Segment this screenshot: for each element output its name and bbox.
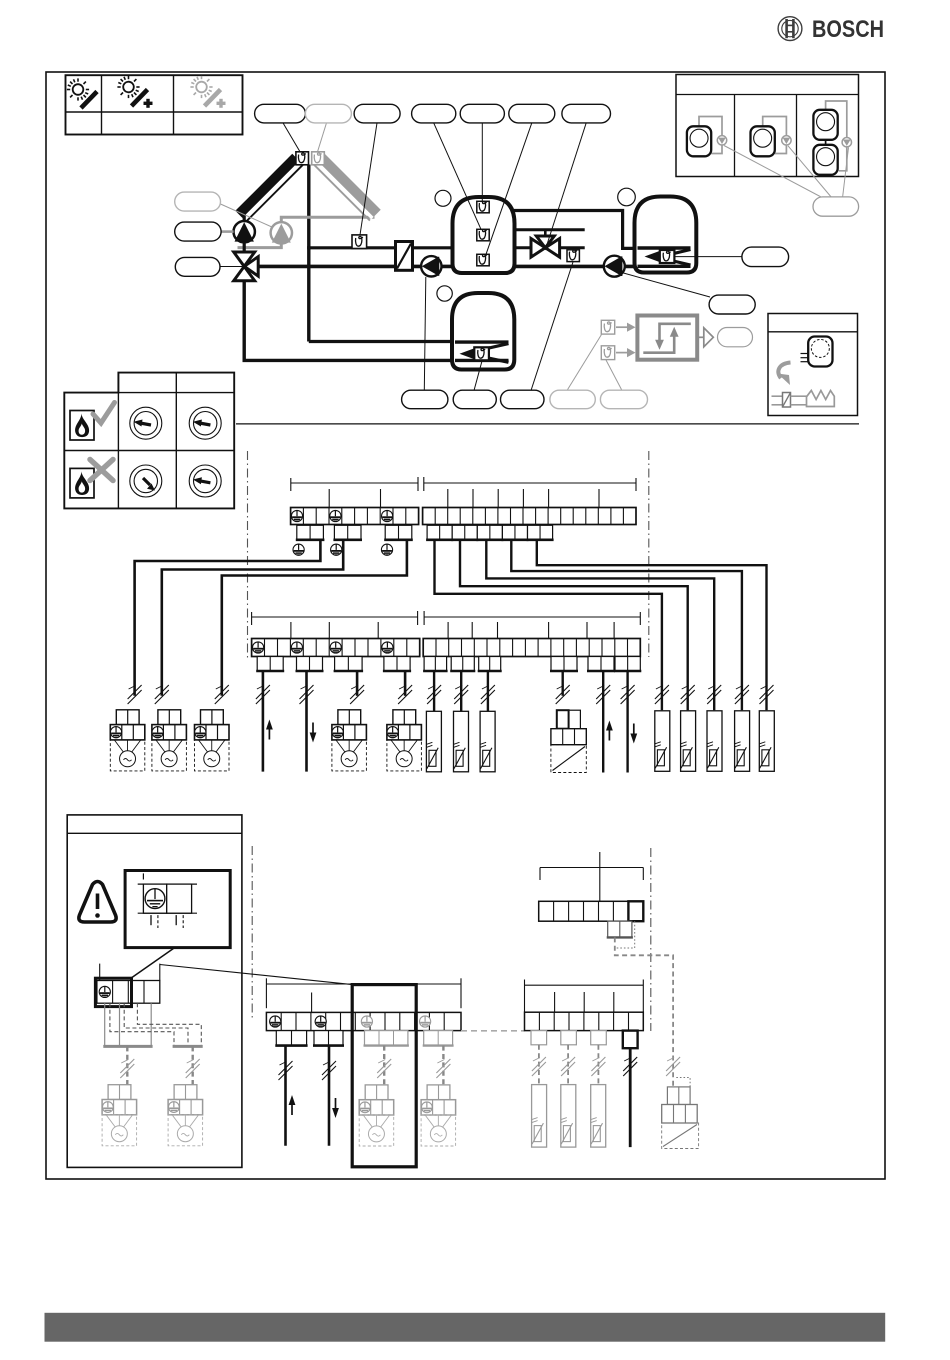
left callout pill 2 <box>175 222 221 241</box>
pump connector M6 <box>102 1085 137 1146</box>
ODU option 2 wiring <box>763 117 787 136</box>
ODU callout pill <box>813 197 859 216</box>
leader T3 sensor to pill B <box>474 361 482 391</box>
X7 plug 1 (grey) <box>531 1031 547 1045</box>
heating circuit stub lower <box>514 246 585 249</box>
terminal detail inset <box>125 871 230 948</box>
sensor TS7 <box>735 711 750 772</box>
flame table <box>64 373 234 509</box>
bottom callout pill D (grey) <box>550 390 595 409</box>
leader pill7 to valve V2 <box>547 123 587 246</box>
dashed cable to pump M7 <box>191 1046 193 1084</box>
terminal strip X6 <box>266 1012 461 1030</box>
section separator line <box>236 423 859 425</box>
leader to X6 highlight <box>160 965 352 985</box>
top callout pill 4 <box>412 104 456 123</box>
dash-dot boundary left (lower wiring) <box>251 846 253 1019</box>
leader T2 sensor to right pill <box>675 256 743 258</box>
X6 arrow up <box>289 1095 296 1115</box>
X8 plug connector <box>607 921 633 937</box>
ODU option 2 valve <box>782 136 791 145</box>
wire X2 to sensor TS7 <box>511 540 742 710</box>
check valve / gravity brake <box>396 242 413 271</box>
wire X3 to pump M4 <box>356 671 359 696</box>
wire X1 to pump M2 <box>162 540 343 696</box>
wire X2 to sensor TS8 <box>537 540 767 710</box>
terminal strip X4 (sensors 2) <box>423 639 640 657</box>
wire X2 to sensor TS4 <box>435 540 662 710</box>
X5 dashed conductors <box>110 1003 201 1046</box>
sensor TS9 (grey) <box>532 1085 547 1148</box>
X1 plug connector 3 <box>384 525 413 540</box>
terminal strip X3 (230V loads) <box>252 639 420 657</box>
leader left pill3 to valve V1 <box>220 266 242 268</box>
left callout pill 3 <box>175 257 220 276</box>
X6 PE terminals grey <box>361 1016 430 1027</box>
X2 plug connector 2 <box>451 525 478 540</box>
terminal strip X5 <box>97 981 160 1004</box>
sun+collector icon 1 <box>67 78 97 108</box>
top callout pill 6 <box>509 104 555 123</box>
sensor TS11 (grey) <box>591 1085 606 1148</box>
grey leader hyst sensor2 to pill E <box>606 360 622 391</box>
wire X1 to pump M1 <box>135 540 321 696</box>
wire X2 to sensor TS6 <box>486 540 714 710</box>
cable break M6 <box>120 1059 134 1078</box>
pipe to DHW tank upper <box>309 340 454 343</box>
grey leader hyst sensor1 to pill D <box>567 335 602 391</box>
terminal strip X1 (mains out) <box>291 508 419 525</box>
pump connector M9 <box>421 1085 456 1146</box>
black cable from X7 <box>629 1048 632 1147</box>
wire X4 aux flow <box>602 671 604 773</box>
position circle c <box>437 286 452 301</box>
gauge row1 col2 <box>130 407 162 439</box>
T3 sensor box <box>474 347 489 360</box>
hysteresis output pill <box>718 328 753 347</box>
grey collector <box>314 158 377 221</box>
grey cable to pump M9 <box>442 1046 444 1085</box>
sensor TS3 <box>480 711 495 772</box>
collector sensor (grey) <box>312 152 325 165</box>
terminal strip X1 bracket <box>291 477 636 507</box>
warning triangle <box>79 882 116 923</box>
leader lines to ODU callout <box>724 146 823 199</box>
leader pump P3 to pill <box>618 272 710 298</box>
solar variant legend table <box>66 75 243 134</box>
wire X3 to pump M5 <box>404 671 407 696</box>
X2 plug connector 3 <box>476 525 503 540</box>
X3/X4 plug connector 6 <box>450 657 475 672</box>
sensor TS4 <box>655 711 670 772</box>
DHW flow sensor <box>567 250 579 262</box>
valve V2 top stub <box>544 230 547 237</box>
pump connector M4 <box>332 710 367 771</box>
collector sensor (black) <box>296 152 309 165</box>
X1 PE terminals <box>291 510 392 521</box>
pump P3 callout pill <box>709 295 755 314</box>
X3 PE terminals <box>253 642 394 653</box>
X6-X7 link dashed <box>461 1030 525 1032</box>
X7 plug 4 (bold) <box>623 1031 638 1049</box>
solar return pipe <box>244 279 453 360</box>
input arrow 1 <box>616 323 636 332</box>
wire X2 to sensor TS5 <box>460 540 688 710</box>
bottom callout pill A <box>402 390 448 409</box>
sun+collector+ icon 2 <box>117 76 152 108</box>
aux arrow down <box>630 724 637 744</box>
leader left pill2 to pump P1 <box>221 230 234 233</box>
warning panel box <box>67 815 242 1168</box>
gauge row1 col3 <box>189 407 221 439</box>
leader DHW sensor to pill C <box>531 262 573 391</box>
heating circuit stub upper <box>514 228 585 231</box>
X3/X4 plug connector 8 <box>550 657 578 672</box>
X3/X4 plug connector 1 <box>256 657 284 672</box>
X2 plug connector 1 <box>426 525 453 540</box>
aux arrow up <box>606 721 613 741</box>
leader pill3 to return sensor <box>360 123 377 235</box>
grey solar circuit return <box>281 217 374 222</box>
X6 plug connector 2 <box>313 1031 344 1046</box>
strip X7 bracket <box>525 980 644 1013</box>
T1 sensor bottom <box>477 254 489 265</box>
pump connector M3 <box>195 710 230 771</box>
X7 plug 3 (grey) <box>591 1031 607 1045</box>
cable break M8 <box>377 1059 391 1078</box>
X1 earth bolt 1 <box>293 544 304 555</box>
X3/X4 plug connector 3 <box>334 657 364 672</box>
terminal strip X7 <box>525 1012 644 1030</box>
sensor TS2 <box>454 711 469 772</box>
X2 plug connector 5 <box>527 525 554 540</box>
X3/X4 plug connector 7 <box>478 657 502 672</box>
DHW 3-way valve V2 <box>531 236 560 257</box>
X2 plug connector 4 <box>501 525 528 540</box>
main outer frame <box>46 72 885 1179</box>
wire X4 to sensor TS2 <box>460 671 462 712</box>
terminal strip X2 (sensors) <box>423 508 636 525</box>
ODU option 3 wiring <box>826 101 847 138</box>
hysteresis sensor 1 <box>601 320 614 334</box>
leader pill1 to black collector sensor <box>283 123 300 152</box>
dash-dot boundary right (lower wiring) <box>650 848 652 1031</box>
X1 earth bolt 3 <box>381 544 392 555</box>
curved replacement arrow <box>778 363 791 386</box>
footer bar <box>45 1313 886 1342</box>
X1 plug connector 1 <box>296 525 325 540</box>
T2 sensor callout pill <box>742 247 789 267</box>
ODU option 3 valve <box>842 138 851 147</box>
flow direction arrow up <box>266 720 273 740</box>
strip X8 bracket <box>540 852 643 901</box>
inset leader line <box>131 948 175 979</box>
grey checkmark <box>93 403 115 424</box>
buffer tank T1 <box>453 197 515 273</box>
X8 dotted jumper <box>615 921 635 948</box>
X3/X4 plug connector 4 <box>383 657 411 672</box>
pipe to buffer tank upper <box>307 246 453 249</box>
X3/X4 plug connector 2 <box>296 657 324 672</box>
dash-dot boundary left (upper wiring) <box>247 451 249 660</box>
heater inset unit <box>808 337 832 367</box>
sensor TS8 <box>759 711 774 772</box>
T2 internal flow symbol <box>638 248 691 266</box>
svg-text:BOSCH: BOSCH <box>812 16 884 43</box>
solar 3-way valve V1 <box>234 252 259 281</box>
terminal strip X8 <box>539 901 644 921</box>
sensor TS6 <box>707 711 722 772</box>
T3 internal flow symbol <box>455 342 509 362</box>
flame icon not-allowed <box>70 468 94 498</box>
pump connector M1 <box>110 710 145 771</box>
grey solar pump <box>271 222 292 243</box>
cable break K2 <box>666 1057 680 1076</box>
T2 sensor box <box>660 250 675 263</box>
DHW tank T2 <box>635 197 697 273</box>
pump P3 <box>604 256 625 277</box>
sensor TS10 (grey) <box>561 1085 576 1148</box>
hysteresis sensor 2 <box>601 346 614 360</box>
grey cable to sensor TS9 <box>538 1045 540 1085</box>
X1 plug connector 2 <box>333 525 362 540</box>
X5 connector block right <box>173 1045 203 1048</box>
leader left pill1 to grey pump <box>221 204 274 228</box>
terminal strip X3 bracket <box>252 611 641 639</box>
solar return sensor <box>352 235 367 249</box>
ODU option 1 unit <box>687 126 711 156</box>
black collector <box>239 158 303 222</box>
top callout pill 3 <box>354 104 400 123</box>
leader pill4 to T1 mid sensor <box>434 123 481 229</box>
X3/X4 plug connector 10 <box>614 657 641 672</box>
strip X6 bracket <box>266 978 461 1012</box>
T1 sensor middle <box>477 229 489 241</box>
gauge row2 col2 <box>130 465 162 497</box>
X6 plug connector 4 (grey) <box>423 1031 454 1046</box>
cable break marks <box>128 685 774 704</box>
left callout pill 1 (grey) <box>175 192 221 211</box>
X6 highlight frame <box>352 985 416 1167</box>
X6 arrow down <box>332 1098 339 1118</box>
electric heater symbol <box>772 391 835 408</box>
sun+collector+ icon 3 (grey) <box>190 76 225 108</box>
DHW tank T3 <box>452 293 514 370</box>
X6 cable breaks <box>279 1061 337 1080</box>
input arrow 2 <box>616 348 636 357</box>
T1 sensor top <box>477 201 489 213</box>
bottom callout pill C <box>501 390 545 409</box>
flame icon allowed <box>70 411 94 441</box>
X6 flow wire <box>284 1046 287 1146</box>
hysteresis block <box>637 316 697 360</box>
X7 plug 2 (grey) <box>561 1031 577 1045</box>
X3/X4 plug connector 5 <box>423 657 448 672</box>
grey cable to pump M8 <box>383 1046 385 1085</box>
pump connector M8 <box>359 1085 394 1146</box>
heat pump options table <box>676 75 859 177</box>
dash-dot boundary right (upper wiring) <box>648 451 650 657</box>
flow direction arrow down <box>310 723 317 743</box>
electric heater inset box <box>768 314 858 416</box>
wire X4 aux return <box>626 671 628 773</box>
wire X1 to pump M3 <box>222 540 407 696</box>
bottom callout pill B <box>453 390 496 409</box>
ODU option 1 wiring <box>699 117 722 136</box>
X5 highlight frame <box>95 978 131 1006</box>
pump connector M5 <box>387 710 422 771</box>
X1 earth bolt 2 <box>331 544 342 555</box>
bottom callout pill E (grey) <box>600 390 647 409</box>
leader pill5 to T1 top sensor <box>481 123 483 201</box>
wire X4 to sensor TS1 <box>433 671 435 712</box>
dashed cable to pump M6 <box>126 1046 128 1084</box>
grey cable to sensor TS10 <box>567 1045 569 1085</box>
top callout pill 5 <box>460 104 504 123</box>
X6 plug connector 3 (grey) <box>364 1031 409 1046</box>
X6 return wire <box>328 1046 331 1146</box>
solar supply pipe (vertical) <box>307 165 310 342</box>
wire X4 to relay K1 <box>562 671 564 696</box>
sensor TS5 <box>681 711 696 772</box>
sensor TS1 <box>426 711 441 772</box>
gauge row2 col3 <box>189 465 221 497</box>
hysteresis output arrow <box>698 328 714 347</box>
top callout pill 1 <box>255 104 306 123</box>
grey cross <box>90 460 113 481</box>
pump connector M2 <box>152 710 187 771</box>
grey cable to sensor TS11 <box>597 1045 599 1085</box>
top callout pill 7 <box>562 104 611 123</box>
X6 PE terminals <box>270 1016 327 1027</box>
leader pump P2 to pill A <box>424 277 426 391</box>
relay K1 <box>551 710 586 772</box>
position circle a <box>435 190 451 206</box>
main flow pipe <box>254 265 454 269</box>
position circle b <box>618 188 636 206</box>
pump P2 <box>421 256 441 276</box>
Bosch logo anchor symbol <box>778 17 802 41</box>
strip X5 bracket ticks <box>100 964 160 981</box>
wire X3 heating flow <box>262 671 265 772</box>
X3/X4 plug connector 9 <box>587 657 615 672</box>
wire X3 heating return <box>305 671 308 772</box>
X6 plug connector 1 <box>275 1031 307 1046</box>
leader pill2 to grey collector sensor <box>318 123 327 152</box>
pump connector M7 <box>168 1085 203 1146</box>
solar pump P1 <box>234 213 255 253</box>
ODU option 2 unit <box>751 126 775 156</box>
tank1 outlet pipe to tank2 <box>514 211 637 249</box>
X5 connector block left <box>103 1003 152 1046</box>
heater inset unit pins <box>801 354 809 362</box>
relay K2 <box>662 1078 699 1149</box>
ODU option 3 units <box>813 110 837 140</box>
grey cable X8 to relay K2 <box>615 937 673 1087</box>
wire X4 to sensor TS3 <box>487 671 489 712</box>
ODU option 1 valve <box>717 136 726 145</box>
cable break M9 <box>436 1059 450 1078</box>
top callout pill 2 (grey) <box>305 104 351 123</box>
leader pill6 to T1 bottom sensor <box>486 123 532 254</box>
cable break M7 <box>186 1059 200 1078</box>
